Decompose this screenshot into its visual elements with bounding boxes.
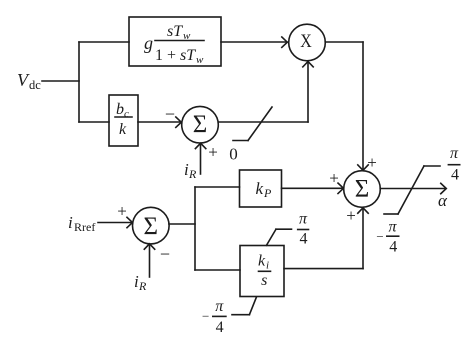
- svg-text:4: 4: [216, 319, 224, 336]
- svg-text:k: k: [258, 253, 266, 270]
- output limiter slash: [384, 213, 398, 215]
- node iRref label: [68, 213, 95, 234]
- svg-text:b: b: [116, 101, 124, 118]
- label pi/4 upper limit of ki/s: [299, 211, 308, 248]
- block ki/s: [240, 246, 284, 297]
- wire S1 to multiplier: [218, 121, 308, 123]
- svg-text:c: c: [124, 108, 129, 120]
- svg-text:sT: sT: [167, 23, 183, 40]
- summer S1: [182, 106, 219, 143]
- svg-text:R: R: [138, 279, 147, 293]
- svg-text:P: P: [263, 186, 272, 200]
- node Vdc label: [17, 70, 41, 92]
- svg-text:w: w: [196, 54, 204, 66]
- wire branch to bc/k block: [79, 121, 109, 123]
- svg-text:−: −: [376, 229, 383, 244]
- summer S2: [133, 207, 170, 244]
- wire branch vertical: [78, 42, 80, 122]
- svg-text:Σ: Σ: [193, 111, 208, 138]
- summer S3: [344, 171, 381, 208]
- wire ki/s to S3: [284, 268, 363, 270]
- wire bc/k to summer S1: [138, 121, 181, 123]
- block bc/k: [109, 95, 138, 146]
- svg-text:Σ: Σ: [143, 213, 158, 240]
- wire Vdc to branch: [42, 80, 79, 82]
- svg-text:α: α: [438, 191, 448, 210]
- wire branch vertical kP/ki: [194, 187, 196, 270]
- wire branch to ki/s: [195, 269, 240, 271]
- svg-text:R: R: [188, 167, 197, 181]
- svg-text:k: k: [256, 179, 264, 198]
- svg-text:π: π: [450, 145, 459, 162]
- wire S3 to output: [380, 188, 445, 190]
- svg-text:i: i: [68, 213, 73, 232]
- svg-text:k: k: [119, 121, 127, 138]
- wire branch to washout block: [79, 41, 129, 43]
- svg-text:i: i: [266, 260, 269, 272]
- ki/s lower limit mark: [249, 297, 256, 315]
- wire kP to S3: [282, 187, 344, 189]
- svg-text:+: +: [346, 206, 356, 225]
- svg-text:π: π: [299, 211, 308, 228]
- svg-text:g: g: [144, 33, 153, 53]
- svg-text:+: +: [367, 153, 377, 172]
- svg-text:Rref: Rref: [74, 220, 95, 234]
- wire multiplier to summer S3: [325, 41, 363, 43]
- svg-text:π: π: [388, 219, 397, 236]
- svg-text:1 +: 1 +: [155, 47, 176, 64]
- block washout g sTw/(1+sTw): [129, 17, 221, 66]
- svg-text:+: +: [117, 201, 127, 220]
- svg-text:sT: sT: [180, 47, 196, 64]
- svg-text:4: 4: [300, 231, 308, 248]
- svg-text:4: 4: [389, 239, 397, 256]
- svg-text:π: π: [215, 298, 224, 315]
- wire S2 output to branch point: [169, 223, 195, 225]
- wire branch to kP: [195, 186, 240, 188]
- svg-text:dc: dc: [29, 78, 41, 92]
- svg-text:4: 4: [451, 167, 459, 184]
- wire washout to multiplier: [221, 41, 287, 43]
- block kP: [240, 170, 282, 207]
- svg-text:s: s: [261, 272, 267, 289]
- wire iRref to summer S2: [98, 222, 132, 224]
- label pi/4 upper output limit: [450, 145, 459, 183]
- svg-text:−: −: [160, 244, 170, 264]
- ki/s upper limit mark: [267, 229, 277, 245]
- svg-text:+: +: [329, 168, 339, 187]
- label minus pi/4 lower output limit: [376, 219, 397, 256]
- svg-text:X: X: [300, 31, 312, 52]
- input iR to S1: [200, 144, 202, 174]
- svg-text:Σ: Σ: [355, 175, 370, 202]
- svg-text:−: −: [202, 308, 209, 323]
- label minus pi/4 lower limit of ki/s: [202, 298, 224, 336]
- limiter slash on S1 output: [233, 140, 248, 142]
- svg-text:+: +: [208, 143, 218, 162]
- svg-text:0: 0: [229, 144, 238, 163]
- multiplier X: [289, 24, 326, 61]
- svg-text:−: −: [165, 104, 175, 124]
- input iR to S2: [149, 244, 151, 277]
